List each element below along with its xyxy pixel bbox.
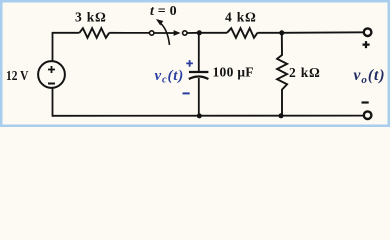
wire: resistor R2 to node B bbox=[257, 32, 281, 34]
wire: source bottom to bottom rail bbox=[53, 88, 364, 116]
capacitor C top plate bbox=[189, 71, 208, 73]
capacitor C top lead bbox=[198, 33, 200, 71]
source plus bbox=[48, 66, 55, 73]
svg-text:t = 0: t = 0 bbox=[150, 4, 177, 19]
source minus bbox=[48, 83, 55, 85]
resistor R2 4 kOhm bbox=[227, 28, 257, 38]
switch blade arrowhead bbox=[174, 30, 181, 36]
vc minus sign bbox=[183, 92, 190, 94]
node A junction dot bbox=[197, 30, 202, 35]
wire: resistor R1 to switch left contact bbox=[109, 32, 149, 34]
output minus sign bbox=[362, 101, 369, 103]
svg-text:12 V: 12 V bbox=[6, 68, 29, 83]
svg-text:2 kΩ: 2 kΩ bbox=[289, 65, 321, 80]
wire: node A to resistor R2 bbox=[199, 32, 227, 34]
switch motion arc bbox=[159, 22, 170, 46]
node B junction dot bbox=[279, 30, 284, 35]
capacitor C bottom lead bbox=[198, 78, 200, 116]
svg-text:100 μF: 100 μF bbox=[213, 64, 254, 79]
output terminal top bbox=[364, 28, 372, 36]
switch right contact bbox=[183, 31, 187, 35]
switch blade wire bbox=[154, 32, 174, 34]
node C junction dot (bottom rail, capacitor) bbox=[197, 113, 202, 118]
svg-text:3 kΩ: 3 kΩ bbox=[75, 10, 107, 25]
resistor R1 3 kOhm bbox=[79, 28, 109, 38]
svg-text:vo(t): vo(t) bbox=[354, 67, 386, 86]
switch left contact bbox=[150, 31, 154, 35]
output plus sign bbox=[363, 41, 370, 48]
wire: node B to output terminal top bbox=[282, 31, 364, 34]
switch arc arrowhead bbox=[156, 19, 163, 25]
wire: source top to top-left corner to resistor R1 bbox=[53, 33, 80, 61]
svg-text:vc(t): vc(t) bbox=[155, 68, 185, 86]
wire: switch to node A bbox=[187, 32, 199, 34]
output terminal bottom bbox=[364, 111, 372, 119]
svg-text:4 kΩ: 4 kΩ bbox=[225, 10, 257, 25]
capacitor C bottom plate (curved) bbox=[189, 77, 209, 80]
node D junction dot (bottom rail, 2k) bbox=[279, 113, 284, 118]
vc plus sign bbox=[186, 60, 193, 67]
resistor R3 2 kOhm (vertical) bbox=[277, 33, 287, 116]
voltage source V1 bbox=[38, 61, 65, 88]
